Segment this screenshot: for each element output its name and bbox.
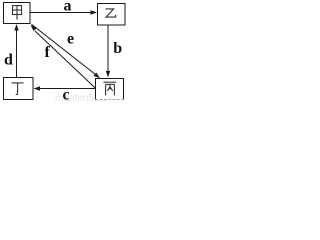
svg-text:e: e — [67, 31, 74, 48]
svg-text:f: f — [45, 44, 51, 61]
svg-text:a: a — [64, 0, 72, 15]
svg-text:d: d — [4, 52, 13, 69]
svg-text:c: c — [63, 87, 70, 103]
svg-text:b: b — [113, 40, 122, 57]
